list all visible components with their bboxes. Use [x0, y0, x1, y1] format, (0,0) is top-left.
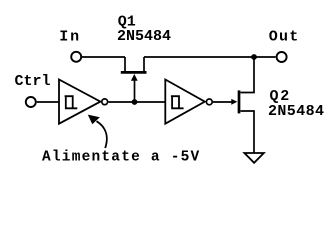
terminal Out [277, 52, 287, 62]
inverter U1 hysteresis symbol [65, 96, 78, 108]
svg-text:Out: Out [269, 29, 300, 46]
wire output node down to Q2 drain [241, 57, 255, 93]
wire Q1 drain lead [143, 57, 145, 72]
wire Ctrl terminal to inverter 1 [37, 101, 59, 103]
node junction gate Q1 [132, 99, 138, 105]
wire In terminal to Q1 source [82, 56, 125, 58]
inverter U1 output bubble [102, 99, 108, 105]
annotation arrow to inverter 1 [97, 121, 107, 148]
inverter U1 triangle [59, 80, 100, 124]
svg-text:Ctrl: Ctrl [15, 73, 51, 90]
transistor Q2 gate arrow [231, 99, 237, 105]
terminal Ctrl [26, 97, 36, 107]
terminal In [71, 52, 81, 62]
svg-text:2N5484: 2N5484 [268, 103, 324, 120]
wire inverter 2 output to Q2 gate [213, 101, 233, 103]
wire Q1 source lead [124, 57, 126, 72]
svg-text:In: In [59, 28, 81, 45]
wire Q2 source lead [241, 111, 255, 153]
wire Q1 gate lead [134, 80, 136, 102]
inverter U2 triangle [165, 80, 205, 124]
transistor Q1 channel bar [121, 71, 147, 74]
inverter U2 hysteresis symbol [171, 96, 184, 108]
wire output node to Out terminal [254, 56, 276, 58]
svg-text:2N5484: 2N5484 [117, 28, 171, 45]
node junction output [251, 54, 257, 60]
transistor Q2 channel bar [238, 90, 241, 113]
svg-text:Alimentate a -5V: Alimentate a -5V [42, 150, 200, 166]
inverter U2 output bubble [206, 99, 212, 105]
ground [244, 153, 263, 163]
transistor Q1 gate arrow [131, 74, 138, 81]
wire Q1 drain to output node [144, 56, 254, 58]
wire inverter 1 output to inverter 2 input [108, 101, 165, 103]
